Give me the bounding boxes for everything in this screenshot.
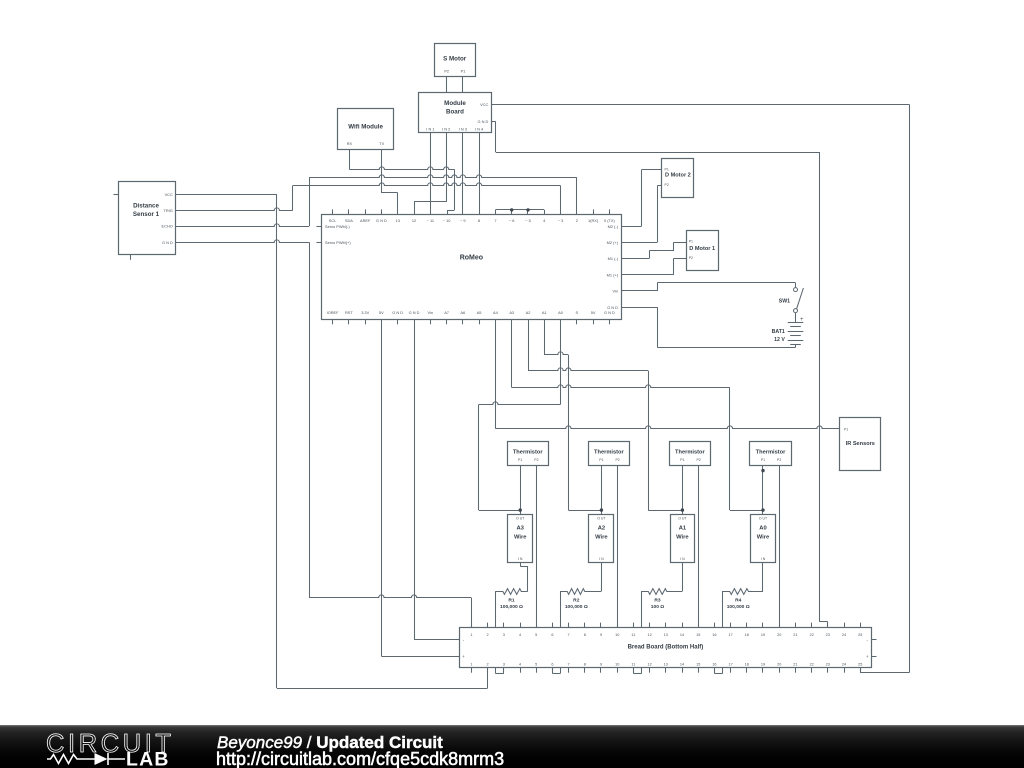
pin stub: Distance Sensor left [114,194,119,196]
wire: RoMeo M2(-) to D Motor 2 P1 [622,170,662,227]
svg-text:P1: P1 [518,458,522,462]
junction: pin ~5 link [526,208,529,211]
junction: A3 Wire OUT node [519,508,522,511]
resistor R2 100,000 ohm [560,589,601,595]
svg-text:M2 (-): M2 (-) [608,224,619,229]
wire: R4 to breadboard bottom pin 16 [714,591,722,673]
wire: Thermistor P1 to A0 Wire OUT [762,466,764,514]
svg-text:R4: R4 [735,598,742,604]
wire: Thermistor P1 to A2 Wire OUT [601,466,603,514]
svg-text:R1: R1 [508,598,515,604]
wire: RoMeo A0 to A3 Wire OUT [479,319,561,510]
svg-text:A2: A2 [526,310,531,315]
box: A3 Wire [508,515,533,563]
svg-text:5V: 5V [591,310,596,315]
svg-text:+: + [462,654,465,659]
svg-text:100 Ω: 100 Ω [651,604,665,610]
breadboard right rail pins - and + [866,638,877,660]
svg-text:RoMeo: RoMeo [460,254,483,261]
svg-text:16: 16 [712,662,716,666]
wire: RoMeo M1(+) to D Motor 1 P2 [622,258,687,274]
svg-text:Bread Board (Bottom Half): Bread Board (Bottom Half) [628,645,704,651]
box: A2 Wire [589,515,614,563]
svg-text:A4: A4 [493,310,499,315]
pin stubs and numbers: breadboard top row 1-25 [470,623,862,637]
svg-text:A6: A6 [460,310,465,315]
svg-text:12: 12 [412,218,416,223]
wire: Module Board IN1 to RoMeo pin ~11 [430,133,432,214]
svg-text:25: 25 [858,662,862,666]
box: Distance Sensor 1 [119,182,176,255]
svg-text:Board: Board [446,109,464,116]
svg-text:21: 21 [793,662,797,666]
svg-text:17: 17 [728,662,732,666]
svg-text:TX: TX [379,141,384,146]
svg-text:R3: R3 [654,598,661,604]
wire: R3 to breadboard bottom pin 11 [633,591,641,673]
svg-text:P1: P1 [461,69,466,74]
svg-text:3: 3 [503,633,505,637]
svg-text:M2 (+): M2 (+) [607,240,619,245]
wire: Distance Sensor ECHO to RoMeo pin 2 [175,175,577,227]
svg-text:SDA: SDA [345,218,353,223]
svg-text:100,000 Ω: 100,000 Ω [500,604,523,610]
svg-text:AREF: AREF [360,218,371,223]
box: S Motor [435,44,476,77]
svg-text:Servo PWM(-): Servo PWM(-) [325,224,350,229]
svg-text:6: 6 [551,633,553,637]
wire: Thermistor P2 to breadboard top pin 10 [617,466,619,628]
svg-text:P1: P1 [665,167,669,171]
svg-text:A1: A1 [542,310,547,315]
svg-text:5V: 5V [379,310,384,315]
wire: RoMeo GND to battery negative [622,307,796,347]
junction: A2 Wire OUT node [600,508,603,511]
svg-text:I N 2: I N 2 [442,127,450,132]
pin stub: Distance Sensor bottom [130,255,132,260]
svg-text:G N D: G N D [392,310,403,315]
junction: pin ~6 link [510,208,513,211]
svg-text:+: + [866,654,869,659]
svg-text:Wifi Module: Wifi Module [348,124,383,131]
svg-text:12 V: 12 V [774,337,785,343]
svg-text:M1 (-): M1 (-) [608,256,619,261]
svg-text:S Motor: S Motor [443,55,467,62]
svg-text:1: 1 [470,662,472,666]
svg-text:VCC: VCC [165,192,173,197]
svg-text:22: 22 [809,662,813,666]
svg-text:7: 7 [568,633,570,637]
svg-text:M1 (+): M1 (+) [607,272,619,277]
svg-text:18: 18 [745,662,749,666]
svg-text:~ 10: ~ 10 [443,218,452,223]
svg-text:11: 11 [631,662,635,666]
pin stub: RoMeo Servo PWM(-) [316,226,321,228]
box: Thermistor 1 [508,442,549,466]
wire: RoMeo M2(+) to D Motor 2 P2 [622,186,662,243]
svg-text:15: 15 [696,662,700,666]
svg-text:23: 23 [826,633,830,637]
svg-text:I N 1: I N 1 [426,127,434,132]
svg-text:I N: I N [761,557,766,561]
svg-text:21: 21 [793,633,797,637]
svg-text:R2: R2 [573,598,580,604]
pin stubs and numbers: breadboard bottom row 1-25 [470,662,862,672]
svg-text:8: 8 [584,662,586,666]
svg-text:25: 25 [858,633,862,637]
wire: Thermistor P1 to A3 Wire OUT [520,466,522,514]
wire: Module Board IN4 to RoMeo pin 8 [479,133,481,214]
svg-text:3.3V: 3.3V [361,310,369,315]
svg-text:10: 10 [615,633,619,637]
svg-text:8: 8 [584,633,586,637]
wire: Module Board IN2 to RoMeo pin 12 [414,133,447,214]
svg-text:Wire: Wire [757,534,770,540]
svg-text:Distance: Distance [133,202,159,209]
svg-text:SCL: SCL [329,218,337,223]
resistor R1 100,000 ohm [496,589,528,595]
wire: A1 Wire IN to R3 [682,563,684,592]
battery BAT1 12 V [772,313,804,348]
wire: RoMeo M1(-) to D Motor 1 P1 [622,242,687,258]
wire: Distance Sensor VCC to breadboard bottom pin 2 [175,194,487,688]
svg-text:2: 2 [576,218,578,223]
resistor R3 100 ohm [642,589,683,595]
wire: S Motor P1 to Module Board [462,77,464,93]
svg-text:P2: P2 [615,458,619,462]
wire: Wifi Module RX to RoMeo pin ~10 [349,149,454,214]
svg-text:IR Sensors: IR Sensors [846,441,875,447]
svg-text:A5: A5 [477,310,482,315]
svg-text:1: 1 [470,633,472,637]
svg-text:I N: I N [680,557,685,561]
svg-text:G N D: G N D [409,310,420,315]
svg-text:TRIG: TRIG [164,208,173,213]
wire: RoMeo A4 to IR Sensors P1 [495,319,839,428]
svg-text:P2: P2 [689,256,693,260]
svg-text:~ 6: ~ 6 [509,218,515,223]
wire: Module Board IN3 to RoMeo pin ~9 [462,133,464,214]
svg-text:Wire: Wire [595,534,608,540]
svg-text:RX: RX [347,141,353,146]
breadboard left rail pins - and + [454,638,465,660]
box: Wifi Module [338,109,394,150]
wire: Thermistor P2 to breadboard top pin 20 [779,466,781,628]
svg-text:~ 3: ~ 3 [558,218,564,223]
svg-text:Sensor 1: Sensor 1 [133,211,160,218]
svg-text:P2: P2 [665,183,669,187]
wire: R1 to breadboard bottom pin 3 [496,591,504,673]
box: A0 Wire [751,515,776,563]
svg-text:VCC: VCC [480,102,488,107]
svg-text:Thermistor: Thermistor [513,450,543,456]
svg-text:22: 22 [809,633,813,637]
svg-text:A3: A3 [509,310,514,315]
svg-text:2: 2 [487,662,489,666]
box: Bread Board (Bottom Half) [460,628,872,668]
box: D Motor 1 [687,231,719,271]
svg-text:O UT: O UT [759,516,768,520]
pin stubs: RoMeo unconnected pins [332,209,334,214]
svg-text:24: 24 [842,662,846,666]
svg-text:ECHO: ECHO [162,224,173,229]
svg-text:9: 9 [600,633,602,637]
junction: A0 Wire OUT node [761,508,764,511]
svg-text:Thermistor: Thermistor [594,450,624,456]
svg-text:20: 20 [777,662,781,666]
svg-text:9: 9 [600,662,602,666]
wire: RoMeo 5V to breadboard left + rail [381,319,459,656]
wire: link RoMeo pins 7 ~6 ~5 4 [495,210,544,215]
box: Thermistor 2 [589,442,630,466]
wire: RoMeo A2 to A1 Wire OUT [528,319,682,510]
svg-text:A1: A1 [679,526,687,532]
svg-text:A3: A3 [516,526,524,532]
svg-text:13: 13 [664,662,668,666]
svg-text:23: 23 [826,662,830,666]
svg-text:7: 7 [568,662,570,666]
svg-text:A7: A7 [444,310,449,315]
svg-text:P2: P2 [444,69,449,74]
wire: RoMeo GND to breadboard left - rail [414,319,459,639]
wire: Module Board GND to breadboard top pin 23 [491,121,827,627]
svg-text:S: S [575,310,578,315]
svg-text:I N 4: I N 4 [475,127,484,132]
svg-text:5: 5 [535,662,537,666]
svg-text:17: 17 [728,633,732,637]
svg-text:G N D: G N D [376,218,387,223]
svg-text:Thermistor: Thermistor [675,450,705,456]
svg-text:P2: P2 [696,458,700,462]
svg-text:G N D: G N D [477,119,488,124]
svg-text:5: 5 [535,633,537,637]
wire: RoMeo A1 to A2 Wire OUT [544,319,601,510]
wire: A3 Wire IN to R1 [520,563,528,592]
svg-text:~ 5: ~ 5 [525,218,531,223]
svg-text:I N 3: I N 3 [459,127,467,132]
svg-text:http://circuitlab.com/cfqe5cdk: http://circuitlab.com/cfqe5cdk8mrm3 [216,749,504,768]
svg-text:P2: P2 [777,458,781,462]
wire: Module Board VCC to breadboard bottom pin 25 [491,105,909,673]
junction: A1 Wire OUT node [681,508,684,511]
svg-text:P1: P1 [680,458,684,462]
svg-text:100,000 Ω: 100,000 Ω [565,604,588,610]
logo: CIRCUIT LAB [46,730,175,768]
svg-text:P1: P1 [844,427,848,431]
wire: Wifi Module TX to RoMeo pin 13 [382,149,398,214]
wire: A2 Wire IN to R2 [601,563,603,592]
box: IR Sensors [840,418,881,471]
svg-text:19: 19 [761,633,765,637]
svg-text:P2: P2 [534,458,538,462]
svg-text:P1: P1 [689,240,693,244]
svg-text:12: 12 [647,633,651,637]
svg-text:~ 9: ~ 9 [460,218,466,223]
svg-text:O UT: O UT [678,516,687,520]
svg-text:7: 7 [494,218,496,223]
wire: Thermistor P2 to breadboard top pin 5 [536,466,538,628]
svg-text:13: 13 [664,633,668,637]
svg-text:14: 14 [680,633,684,637]
wire: R2 to breadboard bottom pin 6 [552,591,560,673]
box: Module Board [419,93,492,133]
svg-text:1(RX): 1(RX) [588,218,599,223]
svg-text:A0: A0 [558,310,564,315]
pin stub: RoMeo Servo PWM(+) [316,242,321,244]
svg-text:G N D: G N D [604,310,615,315]
wire: RoMeo A3 to A0 Wire OUT [512,319,764,510]
box: A1 Wire [671,515,695,563]
resistor R4 100,000 ohm [723,589,764,595]
svg-text:P1: P1 [599,458,603,462]
wire: A0 Wire IN to R4 [762,563,764,592]
svg-text:12: 12 [647,662,651,666]
svg-text:2: 2 [487,633,489,637]
svg-text:100,000 Ω: 100,000 Ω [727,604,750,610]
svg-text:19: 19 [761,662,765,666]
footer bar [0,725,1024,768]
box: RoMeo microcontroller U1 [322,215,622,320]
svg-text:Vin: Vin [428,310,434,315]
wire: RoMeo Vin to switch SW1 [622,283,796,291]
svg-text:Module: Module [444,100,466,107]
wire: Thermistor P1 to A1 Wire OUT [682,466,684,514]
svg-text:Wire: Wire [676,534,689,540]
svg-text:4: 4 [519,633,521,637]
svg-text:D Motor 2: D Motor 2 [665,173,691,179]
wire: Thermistor P2 to breadboard top pin 15 [698,466,700,628]
box: D Motor 2 [662,159,694,198]
svg-text:LAB: LAB [126,749,170,768]
svg-text:10: 10 [615,662,619,666]
svg-text:O UT: O UT [516,516,525,520]
svg-text:Vin: Vin [612,289,618,294]
svg-text:BAT1: BAT1 [772,329,785,335]
svg-text:24: 24 [842,633,846,637]
svg-text:18: 18 [745,633,749,637]
svg-text:SW1: SW1 [779,299,790,305]
svg-text:Servo PWM(+): Servo PWM(+) [325,240,351,245]
svg-text:+: + [800,317,804,323]
svg-text:4: 4 [519,662,521,666]
svg-text:IOREF: IOREF [327,310,340,315]
svg-text:D Motor 1: D Motor 1 [689,246,715,252]
svg-text:I N: I N [518,557,523,561]
box: Thermistor 4 [750,442,792,466]
wire: Distance Sensor TRIG to RoMeo pin ~3 [175,183,560,214]
svg-text:11: 11 [631,633,635,637]
wire: S Motor P2 to Module Board [446,77,448,93]
svg-text:G N D: G N D [607,305,618,310]
svg-text:16: 16 [712,633,716,637]
svg-text:I N: I N [599,557,604,561]
svg-text:0 (TX): 0 (TX) [604,218,616,223]
svg-text:A0: A0 [759,526,766,532]
svg-text:O UT: O UT [597,516,606,520]
svg-text:Thermistor: Thermistor [756,450,786,456]
svg-text:13: 13 [396,218,400,223]
svg-text:8: 8 [478,218,480,223]
svg-text:~ 11: ~ 11 [427,218,434,223]
svg-text:RST: RST [345,310,353,315]
wire: Distance Sensor GND to breadboard top pin 1 [175,240,471,628]
svg-text:3: 3 [503,662,505,666]
svg-text:14: 14 [680,662,684,666]
svg-text:P1: P1 [761,458,765,462]
svg-text:A2: A2 [598,526,605,532]
switch SW1 [779,288,804,313]
svg-text:G N D: G N D [162,240,173,245]
junction: Thermistor 4 P1 stub [761,469,764,472]
svg-text:Wire: Wire [514,534,527,540]
box: Thermistor 3 [670,442,711,466]
svg-text:6: 6 [551,662,553,666]
svg-text:15: 15 [696,633,700,637]
svg-text:20: 20 [777,633,781,637]
